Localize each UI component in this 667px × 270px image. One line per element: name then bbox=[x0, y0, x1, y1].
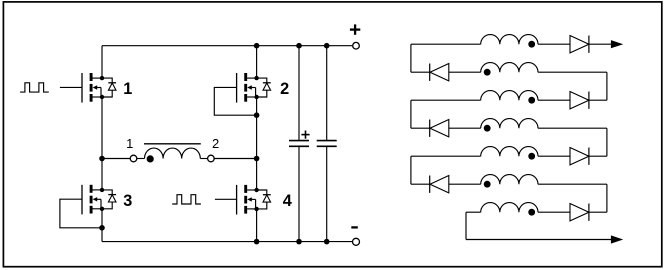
wire node A to inductor terminal 1 bbox=[102, 158, 130, 160]
inductor winding L1 (3 arcs) bbox=[481, 35, 538, 45]
wire inductor stub right bbox=[200, 158, 207, 160]
terminal circle 1 of inductor L0 bbox=[130, 155, 137, 162]
inductor winding L2 (3 arcs) bbox=[481, 63, 538, 73]
node label 2 (inductor terminal) bbox=[212, 136, 219, 151]
wire row3 right bbox=[589, 99, 607, 101]
wire row2 left to D2 bbox=[411, 71, 430, 73]
transistor Q1 (N-MOSFET with body diode) bbox=[82, 73, 116, 103]
wire row6 D6 to winding bbox=[449, 183, 481, 185]
junction dot node A bbox=[99, 156, 105, 162]
junction dot bottom rail at C2 bbox=[324, 239, 330, 245]
wire left link row3-row4 bbox=[410, 100, 412, 128]
output arrowhead bottom bbox=[611, 235, 623, 243]
wire row1 D1 to output arrow bbox=[589, 43, 612, 45]
polarity dot winding L4 bbox=[484, 125, 491, 132]
capacitor C1 bbox=[289, 46, 309, 242]
junction dot gate tie M2 on source rail bbox=[254, 112, 260, 118]
polarity dot winding L6 bbox=[484, 181, 491, 188]
diode D1 (pointing right) bbox=[570, 36, 589, 53]
node label 1 (inductor terminal) bbox=[126, 136, 133, 151]
label + (positive output) bbox=[350, 24, 360, 34]
diode D3 (pointing right) bbox=[570, 92, 589, 109]
junction dot top rail at C2 bbox=[324, 43, 330, 49]
wire row2 D2 to winding bbox=[449, 71, 481, 73]
junction dot top rail at M2 drain bbox=[254, 43, 260, 49]
polarity dot winding L7 bbox=[528, 209, 535, 216]
wire row6 left to D6 bbox=[411, 183, 430, 185]
inductor L0 winding (3 arcs) bbox=[145, 148, 201, 158]
wire row4 D4 to winding bbox=[449, 127, 481, 129]
svg-text:1: 1 bbox=[126, 136, 133, 151]
wire row7 down link bbox=[465, 212, 467, 239]
wire row5 D5 to winding bbox=[538, 155, 570, 157]
svg-text:1: 1 bbox=[123, 80, 132, 98]
capacitor C2 bbox=[317, 46, 337, 242]
wire row7 right bbox=[589, 211, 607, 213]
inductor winding L7 (3 arcs) bbox=[481, 203, 538, 213]
pulse source gate drive 1 (square wave symbol) bbox=[20, 83, 49, 92]
wire right link row4-row5 bbox=[606, 128, 608, 156]
wire row5 right bbox=[589, 155, 607, 157]
wire left link row5-row6 bbox=[410, 156, 412, 184]
core line above inductor L0 bbox=[144, 143, 201, 145]
wire bottom return bbox=[466, 239, 612, 241]
polarity + sign of capacitor C1 bbox=[301, 131, 309, 139]
diode D4 (pointing left) bbox=[430, 120, 449, 137]
polarity dot inductor L0 bbox=[147, 155, 154, 162]
diode D5 (pointing right) bbox=[570, 148, 589, 165]
wire row4 right bbox=[538, 127, 607, 129]
wire row7 D7 to winding bbox=[538, 211, 570, 213]
wire row6 right bbox=[538, 183, 607, 185]
diode D2 (pointing left) bbox=[430, 64, 449, 81]
wire row3 left bbox=[411, 99, 481, 101]
wire row1 winding to D1 bbox=[538, 43, 570, 45]
junction dot bottom rail at M4 source bbox=[254, 239, 260, 245]
wire left rail middle (source M1 to node A) bbox=[101, 97, 103, 159]
junction dot bottom rail at C1 bbox=[296, 239, 302, 245]
svg-text:4: 4 bbox=[283, 192, 292, 210]
svg-text:3: 3 bbox=[123, 192, 132, 210]
junction dot gate tie M3 on source rail bbox=[99, 225, 105, 231]
inductor winding L4 (3 arcs) bbox=[481, 119, 538, 129]
wire row1 left bbox=[411, 43, 481, 45]
wire right rail lower (source M4 to bottom rail) bbox=[256, 209, 258, 242]
terminal circle 2 of inductor L0 bbox=[208, 155, 215, 162]
wire top rail bbox=[102, 45, 353, 47]
polarity dot winding L5 bbox=[528, 153, 535, 160]
wire right rail node B to drain M4 bbox=[256, 159, 258, 191]
wire gate-source tie M2 bbox=[214, 87, 256, 115]
transistor Q2 (N-MOSFET with body diode) bbox=[237, 73, 271, 103]
wire inductor terminal 2 to node B bbox=[214, 158, 256, 160]
label 3 for Q3 bbox=[123, 192, 132, 210]
polarity dot winding L2 bbox=[484, 69, 491, 76]
wire left rail upper (drain M1 to top rail) bbox=[101, 46, 103, 78]
wire right rail middle (source M2 to node B) bbox=[256, 97, 258, 159]
wire row4 left to D4 bbox=[411, 127, 430, 129]
junction dot node B bbox=[254, 156, 260, 162]
wire right link row2-row3 bbox=[606, 72, 608, 100]
diode D6 (pointing left) bbox=[430, 176, 449, 193]
inductor winding L6 (3 arcs) bbox=[481, 175, 538, 185]
wire gate lead M1 bbox=[60, 86, 82, 88]
output arrowhead row1 bbox=[611, 40, 623, 48]
diode D7 (pointing right) bbox=[570, 204, 589, 221]
negative output terminal circle bbox=[353, 238, 360, 245]
wire left rail lower (source M3 to bottom rail) bbox=[101, 209, 103, 242]
wire gate-source tie M3 bbox=[60, 199, 102, 228]
transistor Q3 (N-MOSFET with body diode) bbox=[82, 185, 116, 215]
pulse source gate drive 4 (square wave symbol) bbox=[172, 195, 201, 204]
positive output terminal circle bbox=[353, 42, 360, 49]
transistor Q4 (N-MOSFET with body diode) bbox=[237, 185, 271, 215]
wire right link row6-row7 bbox=[606, 184, 608, 212]
wire gate lead M4 bbox=[215, 198, 237, 200]
wire row5 left bbox=[411, 155, 481, 157]
inductor winding L5 (3 arcs) bbox=[481, 147, 538, 157]
wire row7 left bbox=[466, 211, 481, 213]
svg-text:2: 2 bbox=[212, 136, 219, 151]
wire left link row1-row2 bbox=[410, 44, 412, 72]
wire row3 D3 to winding bbox=[538, 99, 570, 101]
polarity dot winding L3 bbox=[528, 97, 535, 104]
wire right rail upper (top rail to drain M2) bbox=[256, 46, 258, 78]
wire left rail node A to drain M3 bbox=[101, 159, 103, 190]
junction dot top rail at C1 bbox=[296, 43, 302, 49]
polarity dot winding L1 bbox=[528, 41, 535, 48]
label 4 for Q4 bbox=[283, 192, 292, 210]
wire row2 right bbox=[538, 71, 607, 73]
label 2 for Q2 bbox=[280, 80, 289, 98]
wire inductor stub left bbox=[137, 158, 145, 160]
wire bottom rail bbox=[102, 241, 353, 243]
inductor winding L3 (3 arcs) bbox=[481, 91, 538, 101]
svg-text:2: 2 bbox=[280, 80, 289, 98]
label 1 for Q1 bbox=[123, 80, 132, 98]
label - (negative output) bbox=[351, 226, 358, 228]
